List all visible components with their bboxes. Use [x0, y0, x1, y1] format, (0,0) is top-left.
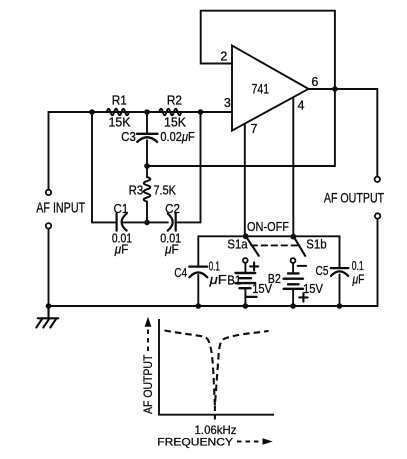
- svg-text:μF: μF: [164, 242, 179, 256]
- svg-text:S1a: S1a: [227, 237, 247, 251]
- svg-text:R2: R2: [167, 94, 182, 108]
- wire: C4 top stem: [197, 236, 199, 265]
- node: bus at C4: [196, 303, 202, 309]
- svg-text:AF OUTPUT: AF OUTPUT: [324, 191, 384, 206]
- svg-text:15K: 15K: [164, 116, 187, 130]
- graph y-axis arrowhead: [145, 317, 152, 327]
- node: junction pin3/right riser: [198, 109, 204, 115]
- resistor R3: [144, 177, 151, 202]
- switch S1a throw contact: [243, 258, 248, 263]
- wire: C4 bottom stem: [197, 275, 199, 306]
- svg-text:AF INPUT: AF INPUT: [36, 199, 85, 216]
- svg-text:R1: R1: [112, 94, 127, 108]
- switch S1a blade: [246, 236, 259, 256]
- wire: feedback loop pin2 to output: [201, 11, 335, 166]
- graph y-axis label arrow (dashed): [147, 327, 149, 351]
- svg-text:C3: C3: [121, 130, 136, 144]
- wire: R3 top stem: [146, 166, 148, 177]
- svg-text:4: 4: [298, 99, 305, 113]
- op-amp U1 741: [232, 46, 309, 131]
- svg-text:0.1: 0.1: [209, 259, 220, 273]
- svg-text:0.02μF: 0.02μF: [160, 130, 195, 144]
- svg-text:B2: B2: [268, 272, 281, 286]
- node: junction top-left: [89, 109, 95, 115]
- B1 minus sign: [247, 296, 257, 298]
- node: output junction: [332, 86, 338, 92]
- wire: left vertical drop to C1 row: [91, 112, 93, 222]
- wire: mid rail from twin-T node to feedback: [147, 165, 335, 167]
- wire: C5 top stem: [339, 236, 341, 267]
- graph x-axis arrowhead: [263, 438, 273, 445]
- svg-text:7: 7: [251, 122, 258, 136]
- svg-text:μF: μF: [114, 242, 129, 256]
- svg-text:6: 6: [311, 75, 318, 89]
- svg-text:1.06kHz: 1.06kHz: [195, 423, 237, 437]
- svg-text:μF: μF: [208, 273, 227, 287]
- node: junction C3 top: [144, 109, 150, 115]
- graph notch marker (dashed vertical): [214, 406, 216, 422]
- wire: B1 bottom stem: [244, 288, 246, 306]
- node: bus at ground: [46, 303, 52, 309]
- wire: C3 top stem: [146, 112, 148, 133]
- svg-text:AF OUTPUT: AF OUTPUT: [141, 354, 155, 414]
- resistor R2: [159, 109, 181, 116]
- svg-text:7.5K: 7.5K: [154, 183, 177, 197]
- ground symbol: [36, 306, 58, 328]
- B2 plus sign: [299, 293, 307, 301]
- wire: pin 7 drop to S1a: [244, 124, 246, 237]
- wire: output pin6 to AF OUTPUT terminal: [309, 89, 378, 177]
- svg-text:ON-OFF: ON-OFF: [247, 219, 289, 234]
- switch S1b throw contact: [291, 258, 296, 263]
- svg-text:B1: B1: [227, 273, 241, 287]
- wire: AF INPUT riser to top rail: [49, 112, 93, 190]
- switch mechanical link (dashed): [252, 244, 298, 246]
- svg-text:S1b: S1b: [306, 237, 326, 251]
- node: bus at B2: [290, 303, 296, 309]
- svg-text:C5: C5: [316, 264, 329, 278]
- svg-text:3: 3: [224, 96, 231, 110]
- node: bus at B1: [243, 303, 249, 309]
- wire: B2 top stem: [292, 263, 294, 272]
- svg-text:2: 2: [220, 49, 227, 63]
- terminal: AF INPUT upper: [46, 190, 51, 195]
- svg-text:FREQUENCY: FREQUENCY: [157, 436, 233, 448]
- graph axes: [159, 319, 274, 415]
- battery B1: [236, 273, 256, 288]
- capacitor C2: [168, 214, 176, 231]
- wire: ground bus: [49, 305, 378, 307]
- svg-text:15V: 15V: [303, 282, 323, 296]
- B1 plus sign: [250, 262, 258, 270]
- node: S1a pole: [243, 233, 249, 239]
- wire: C3 bottom stem to mid node: [146, 140, 148, 166]
- svg-text:R3: R3: [129, 183, 144, 197]
- wire: C5 bottom stem: [339, 275, 341, 307]
- resistor R1: [107, 109, 129, 116]
- capacitor C1: [117, 214, 127, 231]
- wire: R3 bottom stem: [146, 202, 148, 223]
- node: C1/C2 center: [144, 220, 150, 226]
- capacitor C5: [331, 268, 349, 276]
- capacitor C4: [189, 267, 207, 278]
- svg-text:C2: C2: [165, 202, 180, 216]
- wire: top rail (pin 3 net): [92, 111, 232, 113]
- node: bus at C5: [337, 303, 343, 309]
- capacitor C3: [137, 134, 158, 142]
- wire: C1/C2 bottom row: [92, 221, 201, 223]
- terminal: AF OUTPUT upper: [375, 177, 380, 182]
- wire: right vertical riser from C2 row to top rail: [200, 112, 202, 222]
- B2 minus sign: [298, 265, 307, 267]
- terminal: AF OUTPUT lower: [375, 213, 380, 218]
- svg-text:C1: C1: [114, 202, 129, 216]
- wire: switch rail ON-OFF: [198, 235, 339, 237]
- graph x-axis label arrow (dashed): [237, 441, 261, 443]
- svg-text:μF: μF: [352, 273, 365, 287]
- wire: B1 top stem: [244, 264, 246, 272]
- wire: AF OUTPUT lower terminal to bus: [377, 219, 379, 306]
- graph: frequency response: [148, 319, 274, 442]
- wire: B2 bottom stem: [292, 289, 294, 306]
- node: twin-T mid node: [144, 163, 150, 169]
- battery B2: [284, 273, 303, 288]
- terminal: AF INPUT lower: [46, 223, 51, 228]
- switch S1b blade: [293, 236, 305, 256]
- wire: pin 4 drop to S1b: [292, 97, 294, 236]
- graph notch curve (dashed): [165, 331, 269, 406]
- wire: AF INPUT lower terminal to bus: [48, 229, 50, 306]
- node: S1b pole: [290, 234, 296, 240]
- svg-text:741: 741: [251, 82, 269, 97]
- svg-text:15K: 15K: [109, 116, 132, 130]
- svg-text:C4: C4: [174, 266, 187, 280]
- svg-text:0.1: 0.1: [352, 259, 364, 273]
